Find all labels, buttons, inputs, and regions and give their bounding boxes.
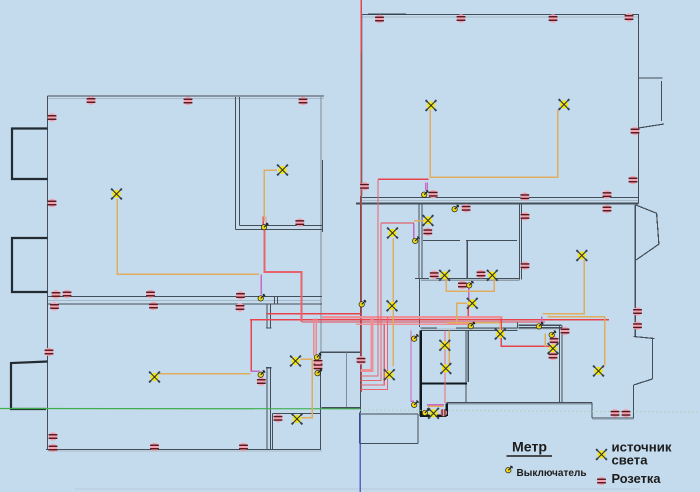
svg-text:Метр: Метр — [512, 439, 547, 455]
svg-text:Розетка: Розетка — [612, 471, 662, 486]
svg-text:света: света — [612, 452, 649, 467]
svg-text:Выключатель: Выключатель — [517, 468, 587, 479]
